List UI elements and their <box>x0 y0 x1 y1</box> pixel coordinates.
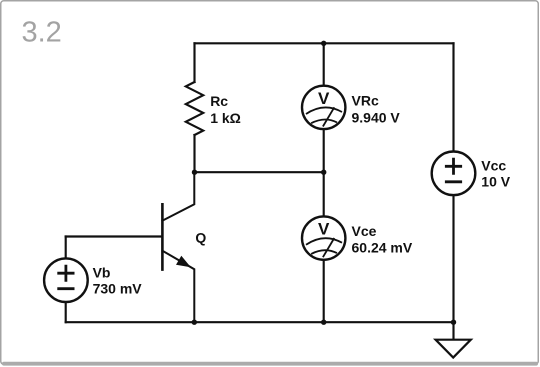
transistor Q <box>162 172 194 322</box>
voltmeter Vce <box>302 216 345 259</box>
wire Vcc top lead <box>452 43 454 151</box>
svg-text:1 kΩ: 1 kΩ <box>210 110 241 126</box>
junction middle rail left <box>192 170 197 175</box>
wire VRc bottom lead <box>323 129 325 172</box>
svg-text:Rc: Rc <box>210 93 228 109</box>
junction ground <box>451 320 456 325</box>
label Vce 60.24 mV <box>352 223 413 256</box>
svg-text:V: V <box>318 220 330 239</box>
svg-text:Q: Q <box>195 230 206 246</box>
resistor Rc <box>186 82 203 135</box>
svg-text:10 V: 10 V <box>481 174 510 190</box>
svg-text:60.24 mV: 60.24 mV <box>352 240 413 256</box>
wire Vb top lead <box>65 237 67 259</box>
wire base lead <box>66 235 163 237</box>
wire Vce top lead <box>323 172 325 216</box>
svg-text:Vb: Vb <box>93 265 111 281</box>
junction emitter bottom <box>192 320 197 325</box>
voltmeter VRc <box>302 86 345 129</box>
svg-text:730 mV: 730 mV <box>93 281 143 297</box>
wire Vcc to ground <box>452 195 454 340</box>
wire Rc top lead <box>193 43 195 82</box>
wire Vb bottom lead <box>65 302 67 322</box>
label Rc 1 kOhm <box>210 93 241 126</box>
wire bottom rail <box>66 321 454 323</box>
junction middle rail right <box>321 170 326 175</box>
svg-text:Vce: Vce <box>352 223 377 239</box>
source Vb <box>44 258 88 302</box>
junction top rail <box>321 41 326 46</box>
wire middle rail <box>195 171 324 173</box>
label Vcc 10 V <box>481 158 510 190</box>
ground <box>436 340 471 358</box>
svg-text:9.940 V: 9.940 V <box>352 110 401 126</box>
svg-text:VRc: VRc <box>352 93 379 109</box>
source Vcc <box>432 152 476 196</box>
junction Vce bottom <box>321 320 326 325</box>
svg-text:3.2: 3.2 <box>22 17 62 49</box>
svg-text:V: V <box>318 89 330 108</box>
label VRc 9.940 V <box>352 93 401 126</box>
wire Rc bottom lead <box>193 135 195 172</box>
svg-text:Vcc: Vcc <box>481 158 506 174</box>
label Vb 730 mV <box>93 265 143 297</box>
wire VRc top lead <box>323 43 325 85</box>
wire top rail <box>195 42 454 44</box>
wire Vce bottom lead <box>323 260 325 322</box>
